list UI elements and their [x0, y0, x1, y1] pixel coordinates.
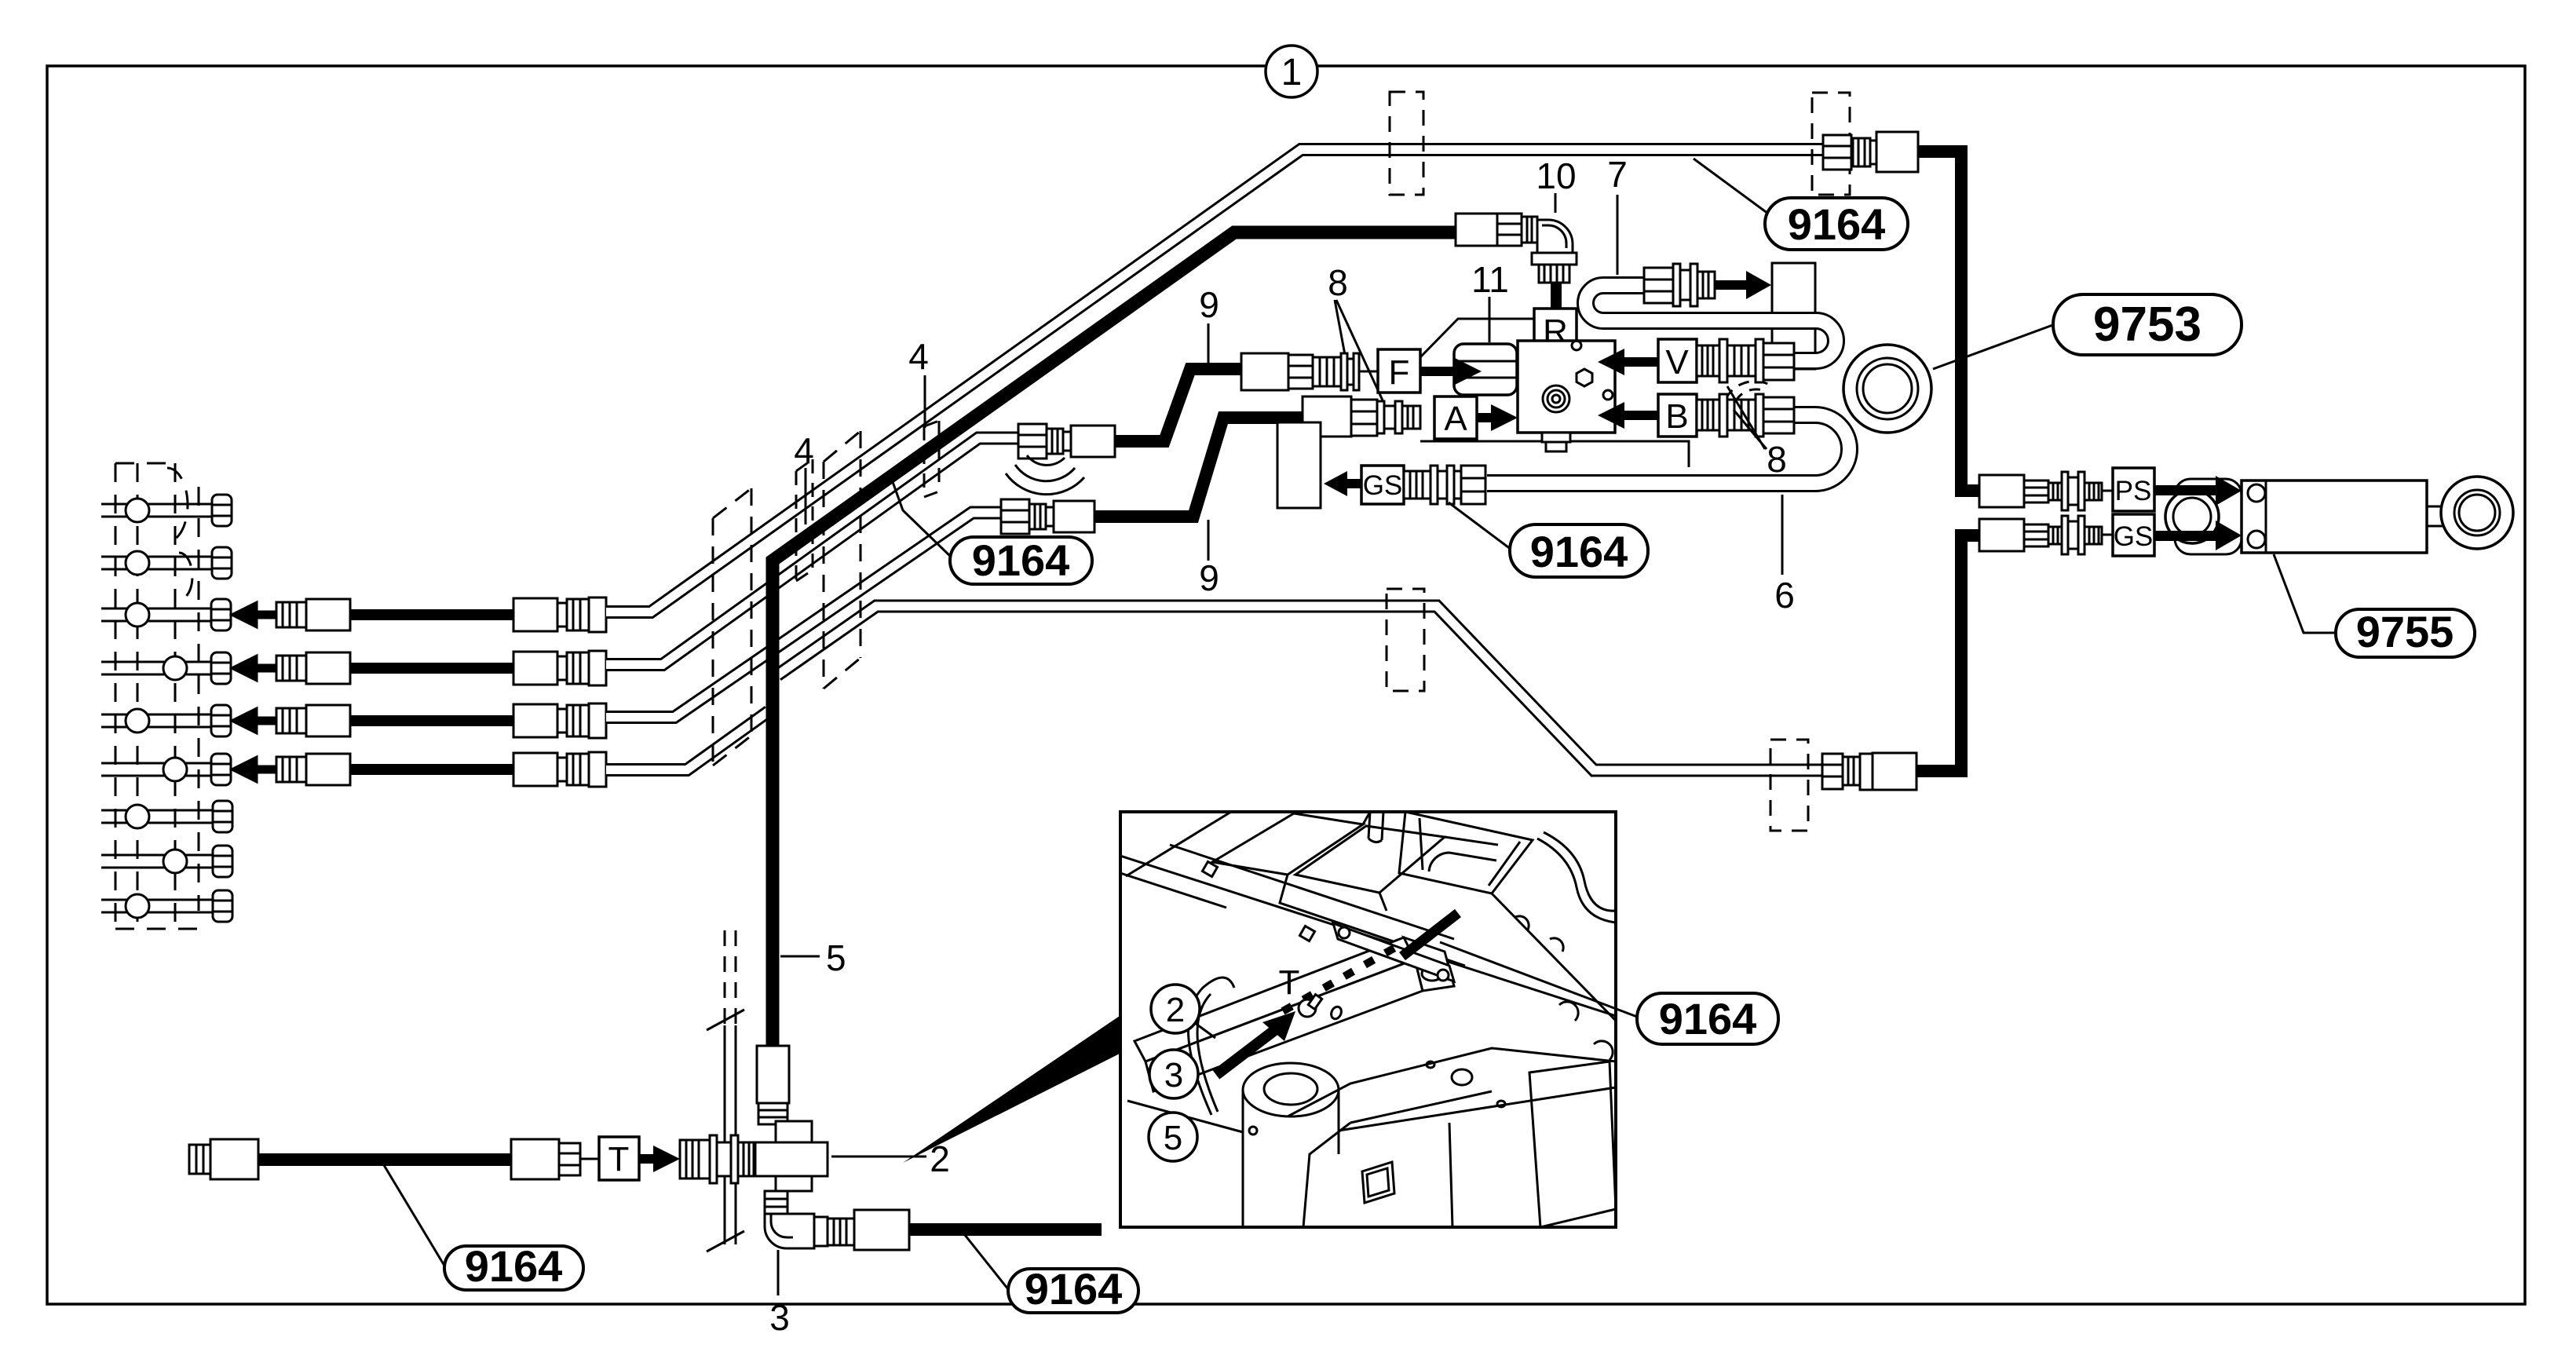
- dashed clamp (top right on tube1): [1812, 93, 1850, 195]
- inset mid channel: [1368, 812, 1383, 842]
- inset small tilted square: [1362, 1162, 1394, 1203]
- manifold row 1 (bolt only): [101, 495, 232, 526]
- svg-text:8: 8: [1767, 439, 1787, 480]
- inset hoop guide: [1188, 977, 1234, 1115]
- manifold row 7 (bolt only): [101, 801, 232, 832]
- F port box: [1378, 349, 1420, 393]
- V port box: [1658, 339, 1697, 382]
- svg-text:1: 1: [1281, 52, 1303, 93]
- grommet 9753 ring: [1843, 345, 1931, 433]
- clamp pair dashed (upper): [824, 431, 860, 689]
- inset right angular block: [1529, 1062, 1616, 1227]
- svg-text:9164: 9164: [972, 535, 1070, 585]
- hose 7 fitting: [1644, 264, 1715, 306]
- inset dashed bolt line: [1283, 945, 1399, 1011]
- callout 9164 (tubes, centre): [889, 471, 1092, 585]
- svg-text:9164: 9164: [1530, 527, 1628, 576]
- svg-text:9: 9: [1199, 284, 1219, 325]
- thick link return fitting to GS row: [1916, 535, 1980, 771]
- bulkhead wall at tee: [707, 930, 744, 1252]
- filter 11: [1454, 344, 1517, 395]
- svg-text:9164: 9164: [1025, 1264, 1123, 1314]
- inset raised box right: [1399, 812, 1533, 893]
- GS fitting chain: [1404, 466, 1485, 504]
- inset right curved flange: [1537, 839, 1616, 923]
- manifold row 2 (bolt only): [101, 547, 232, 579]
- label 3: [777, 1250, 780, 1295]
- manifold row 8 (bolt only): [101, 846, 232, 877]
- circled 5: [1149, 1113, 1197, 1161]
- inset arrow: [1216, 1029, 1276, 1075]
- inset small plate on bar: [1333, 923, 1454, 981]
- inset right frame edge with notches: [1492, 893, 1616, 1021]
- svg-text:9164: 9164: [1659, 994, 1757, 1043]
- top tube fitting: [1823, 132, 1918, 172]
- svg-text:9755: 9755: [2356, 607, 2454, 656]
- svg-text:F: F: [1389, 353, 1410, 392]
- GS hose fitting chain (right): [1979, 516, 2113, 554]
- callout 9164 (T hose): [382, 1161, 583, 1291]
- svg-text:T: T: [608, 1140, 630, 1178]
- svg-text:GS: GS: [2114, 521, 2154, 552]
- plate right of arrow 7: [1772, 263, 1815, 369]
- inset black hose stub: [1402, 913, 1458, 956]
- return tube (long GS return line): [777, 606, 1824, 770]
- manifold row 6 (hose row 4): [101, 754, 231, 785]
- inset lower frame lines: [1127, 1087, 1616, 1132]
- manifold dashed outline: [115, 463, 199, 929]
- svg-text:3: 3: [1164, 1056, 1183, 1094]
- inset frame long edge: [1120, 856, 1616, 1016]
- T arrow: [639, 1154, 656, 1164]
- GS port box (right): [2113, 514, 2154, 556]
- clamp pair dashed (lower): [713, 488, 751, 766]
- tube 4 (manifold row4 toward line 5): [606, 711, 769, 770]
- F arrow: [1420, 367, 1456, 376]
- inset small circles: [1452, 1069, 1472, 1085]
- svg-text:11: 11: [1471, 259, 1509, 300]
- cylinder 9755: [2165, 477, 2513, 554]
- tee fitting 2: [755, 1046, 828, 1214]
- thick link top fitting to PS drop: [1918, 152, 1980, 491]
- svg-text:2: 2: [1166, 991, 1185, 1029]
- svg-text:PS: PS: [2115, 476, 2152, 506]
- T port box: [599, 1137, 639, 1180]
- inset box: [1120, 812, 1616, 1227]
- callout 9755: [2274, 554, 2475, 657]
- manifold row 3 (hose row 1): [101, 599, 231, 630]
- F hose fitting: [1018, 424, 1115, 459]
- callout 9164 (inset): [1440, 942, 1778, 1044]
- A port fitting chain: [1303, 396, 1420, 437]
- GS arrow (left): [1324, 471, 1347, 496]
- F port fitting chain: [1241, 353, 1378, 390]
- hose 5 (thick pressure line: tee to elbow): [773, 232, 1456, 1052]
- callout circle 1: [1266, 46, 1317, 97]
- svg-text:10: 10: [1536, 155, 1576, 196]
- hose 3 (bottom): [909, 1223, 1102, 1236]
- manifold row 5 (hose row 3): [101, 705, 231, 736]
- GS port box: [1361, 466, 1404, 504]
- dashed clamp (return tube left): [1387, 589, 1424, 691]
- hose assembly row 4: [232, 752, 606, 787]
- inset small square holes: [1202, 861, 1217, 876]
- dashed clamp (return tube right): [1770, 740, 1808, 831]
- svg-text:4: 4: [794, 430, 814, 471]
- clamp bracket 4 (on hose 5): [924, 421, 939, 497]
- svg-text:9164: 9164: [1788, 199, 1886, 249]
- dashed clamp (top left on tube1): [1390, 92, 1423, 195]
- PS port box: [2113, 468, 2154, 511]
- inset top panel edge: [1126, 812, 1231, 876]
- svg-text:6: 6: [1774, 575, 1795, 616]
- elbow 3 under tee: [765, 1210, 909, 1250]
- tee inlet fitting chain: [680, 1135, 758, 1183]
- callout 9164 (GS fitting): [1449, 502, 1648, 577]
- svg-text:9164: 9164: [465, 1241, 563, 1291]
- svg-text:9: 9: [1199, 557, 1219, 598]
- A port box: [1434, 396, 1477, 439]
- hose 9 upper (to F): [1113, 369, 1241, 441]
- callout 9164 (hose 3): [965, 1235, 1138, 1314]
- A arrow: [1477, 413, 1494, 422]
- inset panel inner lines: [1170, 812, 1465, 966]
- V fitting chain: [1697, 339, 1794, 382]
- tube 1 (manifold row1 to top tube): [606, 150, 1826, 612]
- elbow fitting 10: [1456, 214, 1577, 283]
- svg-text:V: V: [1665, 343, 1689, 382]
- svg-text:7: 7: [1607, 154, 1628, 195]
- svg-text:5: 5: [1164, 1119, 1182, 1157]
- clamp bracket 4 (on tubes): [796, 459, 813, 581]
- hose 7 arrow: [1715, 280, 1748, 290]
- inset mounting bar 3D: [1135, 937, 1415, 1062]
- manifold row 9 (bolt only): [101, 890, 232, 922]
- svg-text:5: 5: [826, 937, 846, 978]
- hose assembly row 3: [232, 703, 606, 738]
- label 2: [831, 1156, 926, 1158]
- R port box: [1534, 309, 1577, 349]
- circled 2: [1151, 985, 1200, 1033]
- svg-text:T: T: [1279, 963, 1300, 1002]
- hose 7 (R loop to V): [1586, 286, 1836, 361]
- GS open plate: [1277, 422, 1321, 508]
- hose 6 (B loop to GS): [1487, 415, 1850, 484]
- return tube fitting (bottom right): [1822, 753, 1916, 790]
- svg-text:3: 3: [769, 1297, 790, 1338]
- callout 9164 (top right): [1694, 159, 1908, 250]
- pointer wedge to inset: [903, 1016, 1120, 1163]
- B fitting chain: [1697, 394, 1794, 437]
- svg-text:4: 4: [908, 336, 929, 377]
- svg-text:GS: GS: [1363, 470, 1403, 501]
- B arrow: [1623, 411, 1658, 420]
- hose 9 lower (to A): [1093, 418, 1303, 517]
- svg-text:B: B: [1665, 397, 1688, 436]
- label 5: [780, 956, 820, 958]
- bracket outline below valve: [1420, 441, 1689, 467]
- valve block: [1518, 341, 1615, 451]
- PS hose fitting chain: [1979, 472, 2113, 510]
- manifold row 4 (hose row 2): [101, 652, 231, 684]
- GS arrow (right): [2154, 531, 2216, 541]
- bracket outline above valve: [1420, 319, 1534, 357]
- arc detail near F hose fitting: [1006, 455, 1084, 495]
- svg-text:A: A: [1444, 400, 1467, 438]
- inset panel opening 2: [1295, 826, 1445, 893]
- hose assembly row 1: [232, 597, 606, 632]
- inset pivot cylinder: [1243, 1063, 1339, 1227]
- hose assembly row 2: [232, 651, 606, 685]
- callout 9753: [1933, 294, 2242, 369]
- tube 2 (manifold row2 to F-hose fitting): [606, 438, 1018, 665]
- A hose fitting: [1001, 499, 1094, 534]
- B port box: [1658, 394, 1697, 437]
- arc detail between V and B fittings: [1726, 382, 1770, 402]
- svg-text:8: 8: [1328, 262, 1348, 303]
- svg-text:9753: 9753: [2093, 298, 2201, 352]
- inset panel opening 1: [1212, 813, 1363, 875]
- left hose with T fitting: [189, 1139, 599, 1179]
- V arrow: [1623, 357, 1658, 367]
- tube 3 (manifold row3 to A-hose fitting): [606, 513, 1001, 718]
- circled 3: [1149, 1050, 1198, 1098]
- R port arrow: [1551, 283, 1562, 371]
- PS arrow: [2154, 485, 2216, 495]
